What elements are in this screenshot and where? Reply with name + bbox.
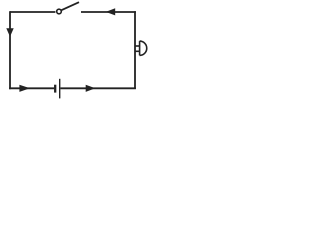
- wire left side: [9, 11, 11, 89]
- buzzer BZ1 top lead: [135, 45, 140, 47]
- buzzer BZ1 bottom lead: [135, 50, 140, 52]
- battery B1 negative plate (short): [54, 85, 56, 93]
- wire top-left segment: [10, 11, 55, 13]
- battery B1 positive plate (long): [59, 79, 61, 99]
- wire right side: [134, 11, 136, 89]
- wire bottom-right segment: [60, 87, 135, 89]
- arrow current top (pointing left): [106, 8, 116, 15]
- arrow current left (pointing down): [6, 28, 13, 37]
- switch S1 contact circle: [57, 9, 62, 14]
- arrow current bottom-left (pointing right): [19, 85, 30, 92]
- switch S1 lever: [61, 2, 79, 10]
- arrow current bottom-right (pointing right): [86, 85, 96, 92]
- buzzer BZ1 body (half-circle): [140, 41, 147, 55]
- wire top-right segment: [81, 11, 136, 13]
- wire bottom-left segment: [9, 87, 54, 89]
